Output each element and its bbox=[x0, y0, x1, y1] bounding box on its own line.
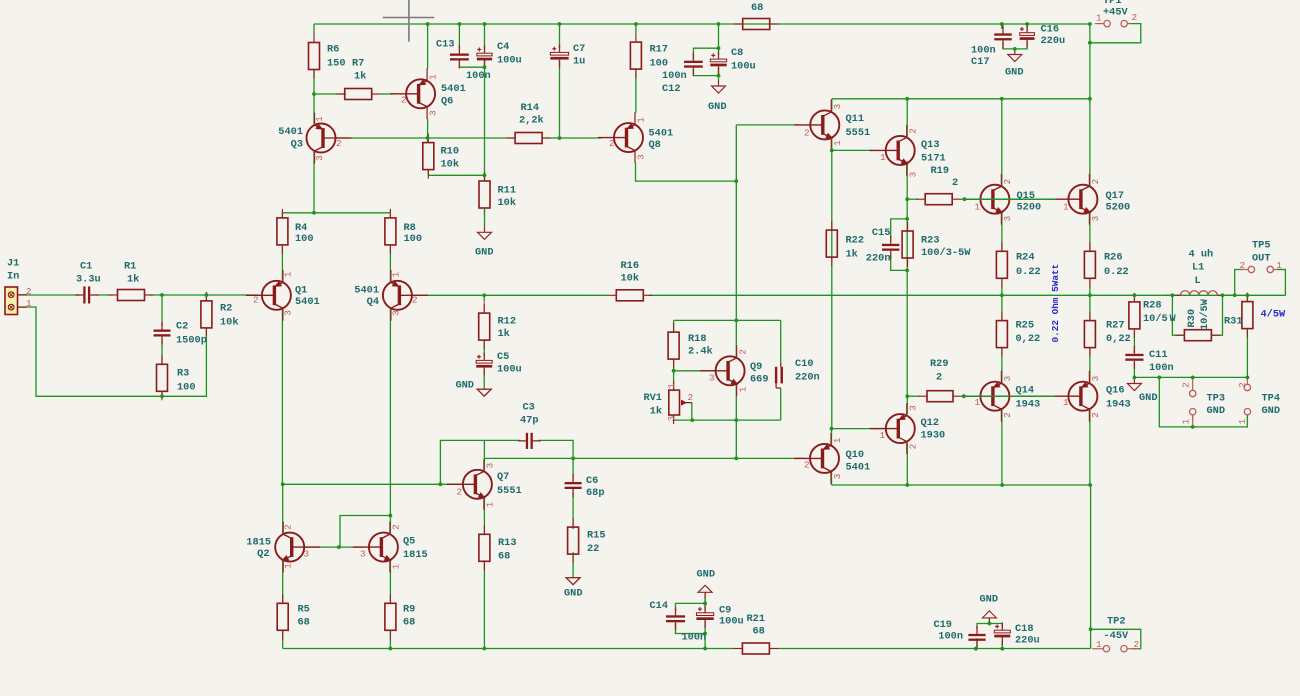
svg-text:R24: R24 bbox=[1016, 252, 1035, 264]
svg-text:Q13: Q13 bbox=[921, 139, 940, 151]
svg-text:C16: C16 bbox=[1041, 24, 1060, 36]
svg-text:2: 2 bbox=[688, 392, 694, 403]
svg-text:10k: 10k bbox=[498, 197, 517, 209]
svg-text:1k: 1k bbox=[354, 71, 366, 83]
svg-text:0,22: 0,22 bbox=[1016, 333, 1041, 345]
svg-text:1: 1 bbox=[1096, 13, 1102, 24]
svg-text:R13: R13 bbox=[498, 537, 517, 549]
svg-text:R22: R22 bbox=[846, 235, 865, 247]
svg-text:C4: C4 bbox=[497, 41, 509, 53]
svg-text:RV1: RV1 bbox=[643, 392, 662, 404]
svg-text:2: 2 bbox=[391, 524, 402, 530]
svg-text:2: 2 bbox=[336, 138, 342, 149]
svg-text:2: 2 bbox=[401, 94, 407, 105]
svg-text:R25: R25 bbox=[1016, 320, 1035, 332]
svg-text:C17: C17 bbox=[971, 56, 990, 68]
svg-text:C8: C8 bbox=[731, 47, 743, 59]
svg-text:3.3u: 3.3u bbox=[76, 274, 101, 286]
svg-text:2: 2 bbox=[1237, 382, 1248, 388]
svg-text:2: 2 bbox=[804, 459, 810, 470]
svg-text:5401: 5401 bbox=[295, 296, 320, 308]
svg-text:100n: 100n bbox=[938, 631, 963, 643]
svg-text:68: 68 bbox=[498, 551, 510, 563]
svg-text:1: 1 bbox=[26, 298, 32, 309]
svg-text:TP5: TP5 bbox=[1252, 240, 1271, 252]
svg-text:C10: C10 bbox=[795, 358, 814, 370]
svg-text:3: 3 bbox=[283, 310, 294, 316]
svg-text:Q10: Q10 bbox=[846, 449, 865, 461]
svg-text:1815: 1815 bbox=[246, 537, 271, 549]
svg-text:1: 1 bbox=[880, 152, 886, 163]
svg-text:1: 1 bbox=[1063, 397, 1069, 408]
svg-text:1: 1 bbox=[1277, 260, 1283, 271]
svg-text:GND: GND bbox=[1139, 392, 1158, 404]
svg-text:1: 1 bbox=[975, 397, 981, 408]
svg-text:Q2: Q2 bbox=[257, 548, 269, 560]
svg-text:1: 1 bbox=[428, 74, 439, 80]
svg-text:C7: C7 bbox=[573, 43, 585, 55]
svg-text:2: 2 bbox=[1090, 412, 1101, 418]
svg-text:Q9: Q9 bbox=[750, 361, 762, 373]
svg-text:5401: 5401 bbox=[441, 83, 466, 95]
svg-text:68: 68 bbox=[403, 617, 415, 629]
svg-text:R1: R1 bbox=[124, 261, 136, 273]
svg-text:3: 3 bbox=[304, 548, 310, 559]
svg-text:2: 2 bbox=[1132, 12, 1138, 23]
svg-text:3: 3 bbox=[1002, 216, 1013, 222]
svg-text:Q7: Q7 bbox=[497, 471, 509, 483]
svg-text:GND: GND bbox=[564, 588, 583, 600]
svg-text:GND: GND bbox=[475, 247, 494, 259]
svg-text:TP3: TP3 bbox=[1207, 393, 1226, 405]
svg-text:GND: GND bbox=[455, 380, 474, 392]
svg-text:Q16: Q16 bbox=[1106, 385, 1125, 397]
svg-text:0,22: 0,22 bbox=[1106, 333, 1131, 345]
svg-text:R26: R26 bbox=[1104, 252, 1123, 264]
svg-text:1: 1 bbox=[283, 563, 294, 569]
svg-text:3: 3 bbox=[1090, 376, 1101, 382]
svg-text:3: 3 bbox=[908, 172, 919, 178]
svg-text:L1: L1 bbox=[1192, 262, 1204, 274]
svg-text:10/5W: 10/5W bbox=[1199, 298, 1211, 330]
svg-text:3: 3 bbox=[636, 154, 647, 160]
svg-text:R31: R31 bbox=[1224, 316, 1243, 328]
svg-text:1943: 1943 bbox=[1106, 399, 1131, 411]
svg-text:R16: R16 bbox=[621, 260, 640, 272]
svg-text:R12: R12 bbox=[498, 316, 517, 328]
svg-text:220n: 220n bbox=[866, 253, 891, 265]
svg-text:1: 1 bbox=[666, 383, 677, 389]
svg-text:2: 2 bbox=[952, 177, 958, 189]
svg-text:5171: 5171 bbox=[921, 153, 946, 165]
svg-text:GND: GND bbox=[697, 569, 716, 581]
svg-text:Q4: Q4 bbox=[367, 296, 379, 308]
svg-text:669: 669 bbox=[750, 374, 769, 386]
svg-text:1: 1 bbox=[880, 430, 886, 441]
svg-text:C13: C13 bbox=[436, 39, 455, 51]
svg-text:C5: C5 bbox=[497, 351, 509, 363]
svg-text:-45V: -45V bbox=[1104, 630, 1130, 642]
svg-text:3: 3 bbox=[908, 405, 919, 411]
svg-text:5200: 5200 bbox=[1106, 202, 1131, 214]
svg-text:C6: C6 bbox=[586, 475, 598, 487]
svg-text:GND: GND bbox=[1005, 67, 1024, 79]
svg-text:1: 1 bbox=[1063, 201, 1069, 212]
svg-text:5551: 5551 bbox=[497, 485, 522, 497]
svg-text:2: 2 bbox=[1002, 412, 1013, 418]
svg-text:5401: 5401 bbox=[278, 126, 303, 138]
svg-text:2: 2 bbox=[283, 524, 294, 530]
svg-text:R21: R21 bbox=[747, 613, 766, 625]
svg-text:5200: 5200 bbox=[1017, 202, 1042, 214]
svg-text:R9: R9 bbox=[403, 604, 415, 616]
svg-text:3: 3 bbox=[391, 310, 402, 316]
svg-text:3: 3 bbox=[666, 416, 677, 422]
svg-text:220u: 220u bbox=[1015, 635, 1040, 647]
svg-text:In: In bbox=[7, 271, 19, 283]
svg-text:100n: 100n bbox=[1149, 362, 1174, 374]
svg-text:1: 1 bbox=[283, 271, 294, 277]
svg-text:C12: C12 bbox=[662, 83, 681, 95]
svg-text:1: 1 bbox=[1096, 639, 1102, 650]
svg-text:R29: R29 bbox=[930, 358, 949, 370]
svg-text:R28: R28 bbox=[1143, 300, 1162, 312]
svg-text:R14: R14 bbox=[521, 102, 540, 114]
svg-text:1: 1 bbox=[636, 117, 647, 123]
svg-text:+45V: +45V bbox=[1103, 7, 1129, 19]
svg-text:C14: C14 bbox=[650, 600, 669, 612]
svg-text:1: 1 bbox=[314, 116, 325, 122]
svg-text:R2: R2 bbox=[220, 303, 232, 315]
svg-text:1: 1 bbox=[832, 140, 843, 146]
svg-text:1: 1 bbox=[737, 386, 748, 392]
svg-text:100: 100 bbox=[295, 233, 314, 245]
svg-text:5401: 5401 bbox=[846, 462, 871, 474]
svg-text:GND: GND bbox=[708, 101, 727, 113]
svg-text:220n: 220n bbox=[795, 372, 820, 384]
svg-text:L: L bbox=[1195, 275, 1201, 287]
svg-text:100n: 100n bbox=[466, 70, 491, 82]
svg-text:68: 68 bbox=[298, 617, 310, 629]
svg-text:4 uh: 4 uh bbox=[1189, 249, 1214, 261]
svg-text:3: 3 bbox=[485, 463, 496, 469]
svg-text:1: 1 bbox=[975, 201, 981, 212]
svg-text:TP2: TP2 bbox=[1107, 616, 1126, 628]
svg-text:R23: R23 bbox=[921, 235, 940, 247]
svg-text:1943: 1943 bbox=[1016, 399, 1041, 411]
svg-text:2: 2 bbox=[1090, 179, 1101, 185]
svg-text:C3: C3 bbox=[523, 402, 535, 414]
svg-text:Q14: Q14 bbox=[1016, 385, 1035, 397]
svg-text:R6: R6 bbox=[327, 44, 339, 56]
svg-text:GND: GND bbox=[980, 594, 999, 606]
svg-text:0.22: 0.22 bbox=[1016, 266, 1041, 278]
svg-text:GND: GND bbox=[1207, 405, 1226, 417]
svg-text:R19: R19 bbox=[931, 165, 950, 177]
svg-text:100: 100 bbox=[650, 58, 669, 70]
svg-text:R18: R18 bbox=[688, 333, 707, 345]
svg-text:2: 2 bbox=[609, 138, 615, 149]
svg-text:Q12: Q12 bbox=[921, 417, 940, 429]
svg-text:0.22 Ohm 5Watt: 0.22 Ohm 5Watt bbox=[1050, 264, 1061, 343]
svg-text:1k: 1k bbox=[650, 406, 662, 418]
svg-text:2: 2 bbox=[908, 128, 919, 134]
svg-text:Q6: Q6 bbox=[441, 96, 453, 108]
svg-text:2: 2 bbox=[26, 286, 32, 297]
svg-text:Q17: Q17 bbox=[1106, 190, 1125, 202]
svg-text:R7: R7 bbox=[352, 58, 364, 70]
svg-text:1: 1 bbox=[1237, 418, 1248, 424]
svg-text:22: 22 bbox=[587, 543, 599, 555]
svg-text:2: 2 bbox=[1181, 382, 1192, 388]
svg-text:2: 2 bbox=[412, 294, 418, 305]
svg-text:47p: 47p bbox=[520, 415, 539, 427]
svg-text:R30: R30 bbox=[1186, 309, 1198, 328]
svg-text:68: 68 bbox=[751, 2, 763, 14]
svg-text:100n: 100n bbox=[682, 632, 707, 644]
svg-text:Q8: Q8 bbox=[649, 139, 661, 151]
svg-text:3: 3 bbox=[1090, 216, 1101, 222]
svg-text:100n: 100n bbox=[971, 45, 996, 57]
svg-text:R5: R5 bbox=[298, 604, 310, 616]
svg-text:0.22: 0.22 bbox=[1104, 266, 1129, 278]
svg-text:220u: 220u bbox=[1041, 35, 1066, 47]
svg-text:1k: 1k bbox=[846, 249, 858, 261]
svg-text:2: 2 bbox=[936, 372, 942, 384]
svg-text:GND: GND bbox=[1262, 405, 1281, 417]
svg-text:1: 1 bbox=[485, 501, 496, 507]
svg-text:TP1: TP1 bbox=[1103, 0, 1122, 7]
svg-text:R10: R10 bbox=[441, 146, 460, 158]
svg-text:150: 150 bbox=[327, 58, 346, 70]
svg-text:2,2k: 2,2k bbox=[519, 115, 544, 127]
svg-text:Q1: Q1 bbox=[295, 285, 307, 297]
svg-text:Q11: Q11 bbox=[846, 113, 865, 125]
svg-text:1: 1 bbox=[832, 437, 843, 443]
svg-text:10k: 10k bbox=[621, 273, 640, 285]
svg-text:100/3-5W: 100/3-5W bbox=[921, 247, 971, 259]
svg-text:68p: 68p bbox=[586, 487, 605, 499]
svg-text:5401: 5401 bbox=[649, 128, 674, 140]
svg-text:OUT: OUT bbox=[1252, 253, 1271, 265]
svg-text:Q3: Q3 bbox=[291, 138, 303, 150]
svg-text:C11: C11 bbox=[1149, 349, 1168, 361]
svg-text:10k: 10k bbox=[441, 159, 460, 171]
svg-text:4/5W: 4/5W bbox=[1261, 309, 1287, 321]
svg-text:3: 3 bbox=[314, 155, 325, 161]
svg-text:10k: 10k bbox=[220, 317, 239, 329]
svg-text:2: 2 bbox=[1240, 260, 1246, 271]
svg-text:TP4: TP4 bbox=[1262, 393, 1281, 405]
svg-text:2: 2 bbox=[1002, 179, 1013, 185]
svg-text:100u: 100u bbox=[719, 616, 744, 628]
svg-text:1: 1 bbox=[1181, 418, 1192, 424]
svg-text:3: 3 bbox=[360, 548, 366, 559]
svg-text:2: 2 bbox=[908, 444, 919, 450]
svg-text:2: 2 bbox=[804, 127, 810, 138]
svg-text:2: 2 bbox=[1134, 639, 1140, 650]
svg-text:100: 100 bbox=[177, 382, 196, 394]
svg-text:3: 3 bbox=[832, 104, 843, 110]
svg-text:5551: 5551 bbox=[846, 127, 871, 139]
svg-text:1: 1 bbox=[391, 563, 402, 569]
svg-text:J1: J1 bbox=[7, 258, 19, 270]
svg-text:3: 3 bbox=[709, 372, 715, 383]
svg-text:100u: 100u bbox=[497, 55, 522, 67]
svg-text:5401: 5401 bbox=[354, 285, 379, 297]
svg-text:C18: C18 bbox=[1015, 623, 1034, 635]
svg-text:R11: R11 bbox=[498, 185, 517, 197]
svg-text:C19: C19 bbox=[933, 619, 952, 631]
svg-text:68: 68 bbox=[753, 626, 765, 638]
svg-text:Q5: Q5 bbox=[403, 536, 415, 548]
svg-text:C2: C2 bbox=[176, 321, 188, 333]
svg-text:1930: 1930 bbox=[921, 430, 946, 442]
svg-text:1815: 1815 bbox=[403, 549, 428, 561]
svg-text:R3: R3 bbox=[177, 368, 189, 380]
svg-text:100n: 100n bbox=[662, 70, 687, 82]
svg-text:Q15: Q15 bbox=[1017, 190, 1036, 202]
svg-text:2: 2 bbox=[253, 294, 259, 305]
svg-text:1k: 1k bbox=[127, 274, 139, 286]
svg-text:3: 3 bbox=[1002, 376, 1013, 382]
svg-text:2.4k: 2.4k bbox=[688, 346, 713, 358]
svg-text:3: 3 bbox=[832, 474, 843, 480]
svg-text:R15: R15 bbox=[587, 530, 606, 542]
svg-text:100: 100 bbox=[404, 233, 423, 245]
svg-text:R27: R27 bbox=[1106, 320, 1125, 332]
svg-text:R17: R17 bbox=[650, 44, 669, 56]
svg-text:W: W bbox=[1170, 313, 1177, 325]
svg-text:100u: 100u bbox=[497, 364, 522, 376]
svg-text:100u: 100u bbox=[731, 61, 756, 73]
svg-text:1u: 1u bbox=[573, 56, 585, 68]
svg-text:10/5: 10/5 bbox=[1143, 313, 1168, 325]
svg-text:3: 3 bbox=[428, 110, 439, 116]
svg-text:1k: 1k bbox=[498, 328, 510, 340]
svg-text:2: 2 bbox=[457, 486, 463, 497]
svg-text:2: 2 bbox=[737, 349, 748, 355]
svg-text:1: 1 bbox=[391, 271, 402, 277]
svg-text:C15: C15 bbox=[872, 227, 891, 239]
svg-text:1500p: 1500p bbox=[176, 335, 207, 347]
svg-text:C1: C1 bbox=[80, 261, 92, 273]
